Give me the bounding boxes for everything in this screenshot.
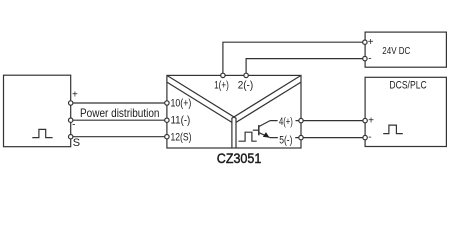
label mask 4(+) (278, 115, 296, 126)
isolation divider upper-left diagonal (167, 75, 236, 148)
wire pin4 to DCS + (270, 120, 365, 122)
terminal pin 12 (165, 135, 169, 139)
isolation divider upper-right diagonal (232, 75, 301, 148)
terminal S on source box (69, 135, 73, 139)
wire S (source to pin 12) (71, 136, 167, 138)
box: 24V DC supply (365, 32, 446, 67)
terminal DCS + (363, 118, 367, 122)
terminal pin 5 (299, 135, 303, 139)
terminal pin 4 (299, 118, 303, 122)
transistor Q1 collector (259, 121, 270, 127)
transistor Q1 emitter arrow (263, 132, 270, 138)
svg-text:5(-): 5(-) (279, 134, 292, 146)
wire + (source to pin 10) (71, 102, 167, 104)
terminal pin 1 (221, 73, 225, 77)
pulse symbol in DCS box (383, 125, 403, 134)
svg-text:10(+): 10(+) (171, 98, 192, 110)
svg-text:12(S): 12(S) (171, 131, 192, 143)
transistor Q1 emitter (259, 133, 270, 138)
svg-text:Power distribution: Power distribution (80, 106, 160, 120)
pulse symbol in source box (32, 129, 52, 137)
wire pin5 to DCS - (270, 137, 365, 139)
terminal DCS - (363, 135, 367, 139)
box: pulse signal source (4, 75, 71, 147)
svg-text:1(+): 1(+) (214, 80, 229, 92)
wire pin2 to 24VDC - (246, 59, 365, 76)
op-amp U1 CZ3051 module box (167, 75, 301, 148)
terminal pin 11 (165, 118, 169, 122)
svg-text:-: - (368, 53, 371, 64)
wire pin1 to 24VDC + (223, 42, 365, 75)
svg-text:+: + (72, 90, 78, 101)
svg-text:4(+): 4(+) (279, 116, 293, 128)
transistor Q1 base wire (253, 129, 259, 131)
svg-text:DCS/PLC: DCS/PLC (389, 80, 426, 92)
svg-text:+: + (368, 115, 374, 126)
terminal pin 10 (165, 101, 169, 105)
svg-text:24V DC: 24V DC (382, 45, 410, 57)
box: DCS/PLC (365, 77, 446, 146)
pulse symbol in module output section (239, 132, 257, 141)
svg-text:S: S (73, 137, 80, 149)
terminal 24V + (363, 40, 367, 44)
isolation divider lower-right diagonal (236, 82, 301, 122)
terminal 24V - (363, 56, 367, 60)
transistor Q1 bar (258, 125, 260, 135)
wire - (source to pin 11) (71, 119, 167, 121)
svg-text:-: - (72, 120, 75, 131)
svg-text:-: - (368, 132, 371, 143)
svg-text:+: + (368, 37, 374, 48)
svg-text:11(-): 11(-) (171, 115, 191, 127)
terminal - on source box (69, 118, 73, 122)
terminal pin 2 (244, 73, 248, 77)
svg-text:2(-): 2(-) (238, 80, 254, 92)
terminal + on source box (69, 101, 73, 105)
label mask 5(-) (278, 134, 295, 145)
isolation divider lower-left diagonal (167, 82, 232, 122)
svg-text:CZ3051: CZ3051 (217, 150, 262, 166)
